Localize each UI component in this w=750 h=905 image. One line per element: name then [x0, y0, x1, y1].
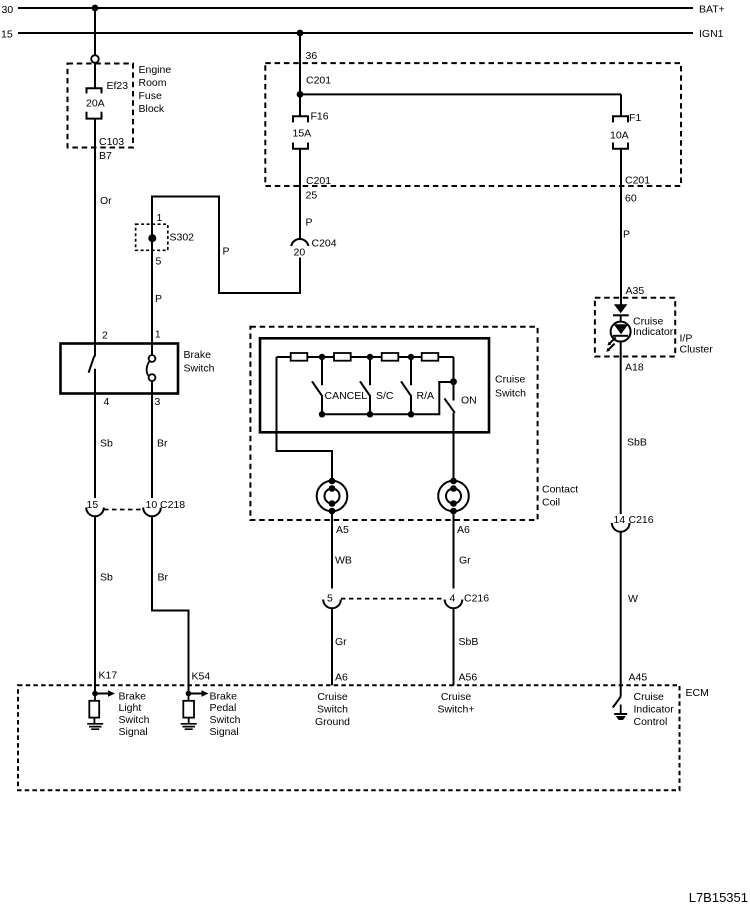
switch CANCEL: [312, 357, 322, 414]
svg-text:Br: Br: [157, 438, 168, 450]
Engine Room Fuse Block box: [68, 64, 134, 148]
svg-text:L7B15351: L7B15351: [689, 890, 748, 905]
K54 resistor: [183, 701, 194, 718]
svg-text:A35: A35: [626, 285, 645, 297]
svg-text:CANCEL: CANCEL: [325, 390, 368, 402]
svg-text:20: 20: [294, 247, 306, 259]
cruise switch plus text: [437, 691, 474, 716]
svg-text:ECM: ECM: [686, 687, 709, 699]
svg-text:A45: A45: [629, 672, 648, 684]
junction on rail 30: [92, 5, 99, 12]
svg-text:SbB: SbB: [459, 636, 479, 648]
svg-text:K17: K17: [99, 670, 118, 682]
connector circle at fuse block: [91, 55, 99, 63]
svg-text:Contact: Contact: [542, 484, 578, 496]
ECM box: [18, 685, 680, 790]
svg-text:Indicator: Indicator: [633, 326, 674, 338]
driver ground: [620, 705, 622, 715]
connector C218 dashed link: [104, 509, 143, 511]
IP cluster box: [595, 298, 675, 357]
svg-text:C216: C216: [464, 593, 489, 605]
brake switch box: [61, 344, 179, 394]
svg-text:ON: ON: [461, 395, 477, 407]
svg-text:Ground: Ground: [315, 716, 350, 728]
wire from rail 30 to fuse block connector: [94, 8, 96, 55]
brake switch left contact: [89, 344, 95, 394]
svg-text:4: 4: [450, 593, 456, 605]
svg-text:Cruise: Cruise: [317, 691, 348, 703]
svg-text:K54: K54: [192, 671, 211, 683]
cruise indicator control text: [634, 691, 675, 728]
wire SbB below C216: [453, 608, 455, 686]
svg-text:S302: S302: [170, 232, 195, 244]
svg-text:C103: C103: [99, 136, 124, 148]
cruise switch assembly box: [250, 327, 537, 520]
switch R/A: [401, 357, 411, 414]
svg-text:20A: 20A: [86, 98, 105, 110]
contact coil label: [542, 484, 578, 509]
splice S302 junction dot: [148, 234, 156, 242]
K17 ground: [93, 718, 95, 723]
node K54 junction dot: [186, 691, 192, 697]
svg-text:Pedal: Pedal: [210, 702, 237, 714]
svg-text:C201: C201: [306, 75, 331, 87]
svg-text:Room: Room: [139, 77, 167, 89]
wire Br below C218 with jog: [152, 516, 189, 694]
K17 resistor: [89, 701, 99, 718]
svg-text:F1: F1: [629, 112, 641, 124]
K17 signal arrow: [95, 693, 109, 695]
svg-text:Fuse: Fuse: [139, 90, 163, 102]
svg-text:W: W: [628, 593, 638, 605]
junction dot bottom bus at R/A: [408, 411, 414, 417]
resistor 2: [334, 353, 351, 361]
svg-text:Cruise: Cruise: [441, 691, 472, 703]
svg-text:Sb: Sb: [100, 438, 113, 450]
connector C204 arc: [291, 239, 308, 246]
svg-text:10: 10: [146, 499, 158, 511]
svg-text:Cluster: Cluster: [680, 344, 714, 356]
K17 signal text: [119, 690, 150, 737]
svg-text:15: 15: [1, 29, 13, 41]
svg-text:Indicator: Indicator: [634, 704, 675, 716]
junction dot top bus at S/C: [367, 354, 373, 360]
LED light arrows: [608, 337, 616, 350]
svg-text:A56: A56: [459, 672, 478, 684]
junction on rail 15: [297, 30, 304, 37]
svg-text:Cruise: Cruise: [634, 691, 665, 703]
svg-text:Gr: Gr: [335, 636, 347, 648]
svg-text:SbB: SbB: [627, 437, 647, 449]
connector C216 dashed link: [341, 598, 444, 600]
brake switch right contact circles: [149, 355, 156, 362]
svg-text:14: 14: [614, 514, 626, 526]
fuse F16: [293, 116, 308, 149]
brake switch label: [184, 349, 215, 375]
IP cluster label: [680, 333, 714, 356]
wire rail 30 BAT+: [18, 7, 693, 9]
resistor 4: [422, 353, 439, 361]
K54 signal text: [210, 690, 241, 737]
wire A6 down to C216: [453, 511, 455, 589]
svg-text:Brake: Brake: [210, 690, 238, 702]
svg-text:Switch: Switch: [317, 704, 348, 716]
K54 signal arrow: [189, 693, 203, 695]
svg-text:4: 4: [104, 396, 110, 408]
svg-text:Block: Block: [139, 103, 165, 115]
svg-text:BAT+: BAT+: [699, 4, 725, 16]
wire Br above C218: [151, 394, 153, 499]
svg-text:Switch: Switch: [495, 388, 526, 400]
svg-text:Sb: Sb: [100, 572, 113, 584]
wire Gr below C216: [331, 608, 333, 686]
svg-text:15: 15: [87, 499, 99, 511]
wire IGN1 down to F16: [299, 33, 301, 116]
svg-text:5: 5: [327, 593, 333, 605]
node K17 junction dot: [92, 691, 98, 697]
svg-text:Switch: Switch: [184, 363, 215, 375]
svg-text:WB: WB: [335, 555, 352, 567]
cruise switch inner box: [260, 338, 489, 432]
svg-text:C216: C216: [629, 514, 654, 526]
switch S/C: [360, 357, 370, 414]
svg-text:P: P: [223, 246, 230, 258]
svg-text:Br: Br: [158, 572, 169, 584]
cruise indicator lamp circle: [620, 315, 622, 322]
svg-text:Signal: Signal: [210, 726, 239, 738]
cruise indicator label: [633, 316, 674, 339]
cruise switch label: [495, 374, 526, 400]
svg-text:5: 5: [156, 256, 162, 268]
bottom bus wire: [322, 382, 451, 414]
svg-text:Cruise: Cruise: [495, 374, 526, 386]
wire A5 down to C216: [331, 511, 333, 589]
svg-text:Switch: Switch: [210, 714, 241, 726]
splice S302 box: [136, 224, 168, 250]
svg-text:S/C: S/C: [376, 390, 394, 402]
junction to F1 branch: [297, 91, 304, 98]
svg-text:C218: C218: [160, 499, 185, 511]
wire rail 15 IGN1: [18, 32, 693, 34]
top bus wire: [277, 356, 454, 358]
cruise switch ground text: [315, 691, 350, 728]
wire Sb below C218: [94, 516, 96, 694]
svg-text:P: P: [155, 293, 162, 305]
K54 ground: [188, 718, 190, 723]
wire P from C204 to brake switch pin 1: [152, 197, 300, 356]
svg-text:25: 25: [306, 190, 318, 202]
cruise indicator control driver: [613, 697, 621, 708]
wire W below C216: [620, 531, 622, 697]
wire F1 branch down: [620, 94, 622, 116]
svg-text:A6: A6: [335, 672, 348, 684]
svg-text:C201: C201: [625, 175, 650, 187]
svg-text:3: 3: [155, 396, 161, 408]
resistor 3: [382, 353, 399, 361]
brake switch right blade: [147, 361, 150, 376]
node ON junction dot: [450, 378, 457, 385]
svg-text:Switch+: Switch+: [437, 704, 474, 716]
svg-text:Brake: Brake: [119, 690, 147, 702]
svg-text:R/A: R/A: [417, 390, 435, 402]
svg-text:Brake: Brake: [184, 349, 212, 361]
junction dot bottom bus at CANCEL: [319, 411, 325, 417]
svg-text:1: 1: [155, 330, 161, 341]
svg-text:1: 1: [157, 212, 163, 224]
switch ON: [444, 382, 454, 480]
svg-text:F16: F16: [311, 111, 329, 123]
svg-text:10A: 10A: [610, 130, 629, 142]
svg-text:C201: C201: [306, 175, 331, 187]
svg-text:B7: B7: [99, 150, 112, 162]
svg-text:Coil: Coil: [542, 497, 560, 509]
svg-text:Switch: Switch: [119, 714, 150, 726]
svg-text:Light: Light: [119, 702, 142, 714]
svg-text:Ef23: Ef23: [107, 80, 129, 92]
left riser wire to coil A5: [277, 357, 333, 480]
svg-text:Gr: Gr: [459, 555, 471, 567]
right riser to ON: [453, 357, 455, 382]
svg-text:A6: A6: [457, 524, 470, 536]
svg-text:60: 60: [625, 193, 637, 205]
wire SbB from lamp to C216: [620, 340, 622, 514]
svg-text:IGN1: IGN1: [699, 28, 724, 40]
svg-text:Or: Or: [100, 195, 112, 207]
svg-text:36: 36: [306, 50, 318, 62]
contact coil right: [438, 481, 469, 512]
svg-text:A18: A18: [625, 362, 644, 374]
svg-text:Engine: Engine: [139, 64, 172, 76]
svg-text:15A: 15A: [293, 128, 312, 140]
junction dot top bus at R/A: [408, 354, 414, 360]
wire into fuse block: [94, 63, 96, 88]
resistor 1: [291, 353, 308, 361]
svg-text:Control: Control: [634, 716, 668, 728]
contact coil left: [317, 481, 348, 512]
fuse F1: [613, 116, 628, 149]
svg-text:C204: C204: [312, 238, 337, 250]
junction dot top bus at CANCEL: [319, 354, 325, 360]
cruise indicator LED diode: [614, 304, 628, 313]
svg-text:2: 2: [102, 330, 108, 342]
fuse Ef23: [87, 88, 102, 118]
svg-text:A5: A5: [336, 524, 349, 536]
junction dot bottom bus at S/C: [367, 411, 373, 417]
wire Sb above C218: [94, 394, 96, 499]
wire to fuse F1: [300, 93, 621, 95]
brake switch right bottom lead: [151, 381, 153, 394]
connector C201 box: [265, 63, 681, 186]
svg-text:30: 30: [2, 4, 14, 16]
svg-text:P: P: [623, 229, 630, 241]
svg-text:P: P: [306, 217, 313, 229]
svg-text:Signal: Signal: [119, 726, 148, 738]
